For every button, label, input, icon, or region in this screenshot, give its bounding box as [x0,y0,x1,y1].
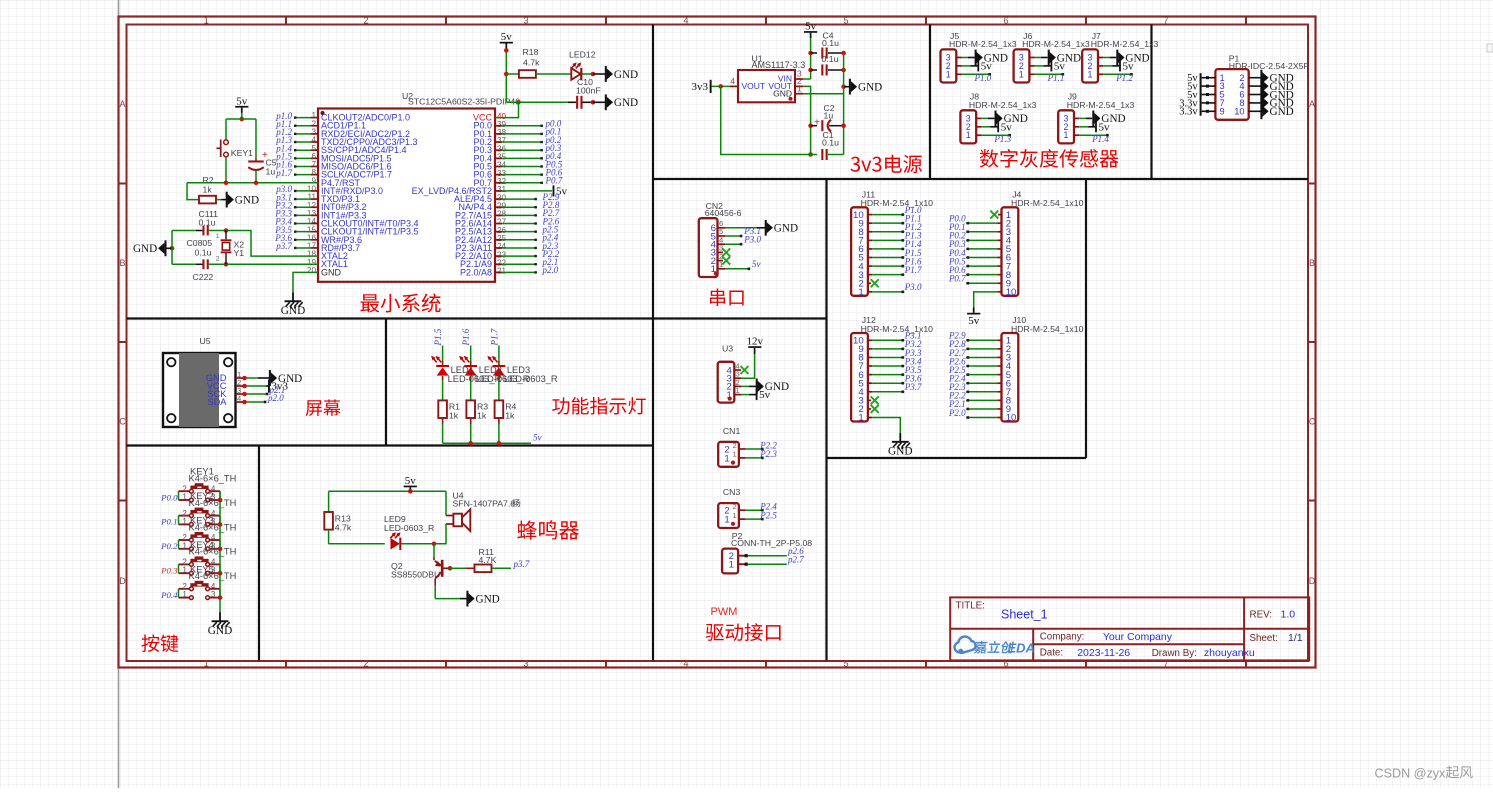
svg-text:3v3: 3v3 [692,81,709,93]
svg-text:U3: U3 [722,344,733,354]
svg-text:1: 1 [858,413,863,424]
GND port (3v3 section) [841,79,882,95]
svg-text:P1.0: P1.0 [974,73,992,83]
capacitor C222 0.1u [172,238,318,282]
crystal X2 Y1 [216,231,244,265]
wire xtal left vertical [171,231,173,265]
svg-text:1: 1 [204,16,209,26]
svg-text:5v: 5v [1054,61,1066,73]
title 功能指示灯 [552,397,646,415]
switch KEY4 button [179,540,237,575]
svg-text:P2.0: P2.0 [948,408,966,418]
title 3v3电源 [851,155,922,173]
svg-text:P1.4: P1.4 [1091,134,1109,144]
svg-text:1: 1 [733,511,737,520]
svg-text:CSDN @zyx: CSDN @zyx [1375,766,1447,780]
svg-text:Your Company: Your Company [1103,631,1173,643]
J10 pin wires P2.9-P2.0 [966,339,1001,419]
wire KEY5 left bracket [178,589,180,598]
U2 right pin wires pins 30-21 [495,198,537,274]
svg-text:1: 1 [736,386,740,395]
svg-text:4.7k: 4.7k [523,57,540,67]
svg-text:1.0: 1.0 [1281,608,1296,620]
net label P0.4 [160,590,178,600]
wire VIN pin3 to 5v [803,78,811,80]
J4 pin10 wire to 5v [974,292,1002,313]
svg-text:5v: 5v [236,95,248,107]
wire Q2 base to R11 [444,566,466,571]
connector J7 [1082,31,1158,83]
svg-text:3: 3 [523,16,528,26]
wire 5v input rail [808,38,813,79]
svg-text:+: + [262,150,268,161]
U5 pin1 wire to GND [242,370,302,386]
U3 pin4 no-connect [741,366,749,374]
scrollbar fragment top right [1487,44,1493,52]
svg-text:4.7k: 4.7k [335,523,352,533]
svg-text:p2.0: p2.0 [267,393,284,403]
net label P1.6 (vertical) [461,328,471,346]
svg-text:P0.3: P0.3 [160,566,178,576]
svg-text:0.1u: 0.1u [822,54,839,64]
GND earth (U2 pin20) [281,272,318,316]
LED name labels [448,365,558,384]
J11 net labels P1.0-P1.7 [904,205,922,275]
title block texts [956,600,1303,659]
EDA logo [955,637,1035,656]
svg-text:Drawn By:: Drawn By: [1152,648,1197,659]
svg-text:5v: 5v [968,315,980,327]
svg-text:P0.1: P0.1 [160,517,177,527]
svg-text:5v: 5v [981,61,993,73]
svg-text:10: 10 [1006,413,1017,424]
LED12 [569,50,596,81]
svg-text:GND: GND [888,445,912,457]
svg-text:GND: GND [235,194,259,206]
net label P0.3 [160,566,178,576]
svg-text:P1.2: P1.2 [1115,73,1133,83]
svg-text:1u: 1u [266,167,276,177]
capacitor C5 1u [248,150,276,183]
svg-text:1: 1 [729,560,734,571]
J12 pin1 wire to GND [868,418,900,434]
svg-text:D: D [119,576,126,586]
svg-text:0.1u: 0.1u [822,138,839,148]
svg-text:1: 1 [946,69,951,79]
resistor R18 4.7k [506,47,571,78]
svg-text:KEY1: KEY1 [231,148,253,158]
svg-text:4: 4 [683,16,688,26]
frame column ticks and numbers [204,16,1246,669]
wire gnd vertical rail [843,53,845,155]
svg-text:P0.0: P0.0 [160,492,178,502]
svg-text:K4-6×6_TH: K4-6×6_TH [189,522,237,532]
speaker U4 SFN-1407PA7.6 [446,490,520,531]
net label P0.1 [160,517,177,527]
title 串口 [710,289,744,306]
svg-text:LED-0603_R: LED-0603_R [504,374,558,384]
svg-text:TITLE:: TITLE: [956,600,985,611]
watermark [1375,766,1473,781]
connector J10 [1002,315,1084,424]
svg-text:HDR-M-2.54_1x10: HDR-M-2.54_1x10 [1011,198,1084,208]
svg-text:1: 1 [182,541,186,550]
svg-text:GND: GND [774,223,798,235]
capacitor C1 0.1u [821,130,839,160]
wire 3v3 bottom rail [721,86,844,154]
J11 pin wires P1.0-P1.7 [868,213,905,276]
GND port (xtal) [133,240,174,256]
5v power port (MCU) [500,31,513,49]
svg-text:p3.7: p3.7 [513,559,530,569]
svg-text:5v: 5v [752,259,761,269]
wire KEY3 left bracket [178,540,180,549]
J11 pin2 no-connect [868,279,879,287]
5v power port (reset) [235,95,248,113]
P1 right GND ports [1249,70,1294,119]
svg-text:2: 2 [216,256,220,263]
svg-text:CN1: CN1 [723,426,741,436]
svg-text:1: 1 [733,450,737,459]
LED2 [459,346,477,401]
wire Q2 collector to gnd [435,585,466,599]
svg-text:HDR-M-2.54_1x10: HDR-M-2.54_1x10 [1011,324,1084,334]
svg-text:1: 1 [1087,69,1092,79]
regulator U1 AMS1117-3.3 [730,53,805,102]
CN2 pin4 wire P3.0 [718,234,762,245]
svg-text:GND: GND [476,593,500,605]
svg-text:20: 20 [307,266,317,275]
svg-text:U5: U5 [200,336,211,346]
svg-text:GND: GND [1270,106,1294,118]
wire 5v vertical rail [504,48,521,104]
GND port (LED12) [593,66,638,82]
svg-text:P0.7: P0.7 [545,176,563,186]
svg-text:VOUT: VOUT [742,81,766,91]
svg-text:100nF: 100nF [576,85,601,95]
svg-text:2: 2 [363,16,368,26]
svg-text:5v: 5v [1099,121,1111,133]
svg-text:P2.3: P2.3 [759,449,777,459]
switch KEY5 button [179,564,237,599]
U5 pin3 wire p2.1 [242,385,285,396]
J10 net labels P2.9-P2.0 [948,331,966,418]
svg-text:5v: 5v [805,21,817,33]
svg-text:LED-0603_R: LED-0603_R [384,523,434,533]
connector J4 [1002,189,1084,298]
sheet left edge gray line [118,0,120,788]
U3 pin2 wire to GND [741,379,789,395]
svg-text:p3.7: p3.7 [275,241,292,251]
transistor Q2 SS8550DBU [391,544,444,585]
svg-text:1: 1 [1063,130,1068,140]
net label P1.5 (vertical) [433,328,443,346]
title 驱动接口 [706,623,781,641]
resistor R11 4.7K [466,547,512,572]
svg-text:Y1: Y1 [234,248,245,258]
wire speaker right branch [434,491,446,544]
U2 left pin wires pins1-8 [294,116,318,175]
svg-text:1k: 1k [477,411,487,421]
svg-text:GND: GND [614,69,638,81]
12v power port [747,336,764,348]
svg-text:640456-6: 640456-6 [705,208,742,218]
connector P1 HDR-IDC-2.54-2X5P [1215,54,1309,120]
svg-text:HDR-M-2.54_1x3: HDR-M-2.54_1x3 [969,100,1037,110]
svg-text:Date:: Date: [1040,648,1063,659]
connector J11 [851,189,933,298]
svg-text:P3.7: P3.7 [904,382,922,392]
J4 pin wires P0.0-P0.7 [966,222,1001,285]
svg-text:21: 21 [497,267,507,276]
section divider lines [127,25,1309,661]
connector CN1 [718,426,777,467]
net labels P2.9-p2.0 [542,192,560,275]
wire 5v rail (LEDs) [443,433,542,446]
svg-text:5v: 5v [501,31,513,43]
svg-text:5v: 5v [759,389,771,401]
wire GND pin1 to gnd rail [803,93,844,95]
capacitor C2 1u electrolytic [811,103,846,132]
svg-text:C222: C222 [193,272,214,282]
LED1 [431,346,449,401]
connector J6 [1014,31,1090,83]
J12 net labels P3.1-P3.7 [904,331,922,392]
svg-text:3.3v: 3.3v [1179,107,1198,118]
J11 pin1 wire P3.0 [868,282,922,293]
svg-text:P1.7: P1.7 [489,328,499,346]
svg-text:1: 1 [1019,69,1024,79]
svg-text:4: 4 [683,659,688,669]
svg-text:GND: GND [321,267,342,277]
resistor R3 1k [466,400,488,443]
svg-text:1: 1 [724,453,729,464]
svg-text:GND: GND [208,625,232,637]
svg-text:STC12C5A60S2-35I-PDIP40: STC12C5A60S2-35I-PDIP40 [408,97,520,107]
title 屏幕 [306,399,341,416]
svg-text:SFN-1407PA7.6-: SFN-1407PA7.6- [453,498,519,508]
svg-text:P3.0: P3.0 [904,282,922,292]
svg-text:5v: 5v [1123,61,1135,73]
connector J5 [941,31,1017,83]
capacitor C4 0.1u [811,30,846,58]
svg-text:Sheet_1: Sheet_1 [1001,608,1048,622]
svg-text:6: 6 [1003,16,1008,26]
U2 left pin wires pins10-17 [294,190,318,249]
J12 pin2 no-connect [868,405,879,413]
net label P0.0 [160,492,178,502]
svg-text:SS8550DBU: SS8550DBU [391,570,440,580]
svg-text:1/1: 1/1 [1288,632,1303,644]
wire xtal upper [226,231,318,257]
switch KEY2 button [179,491,237,526]
svg-text:A: A [119,99,125,109]
svg-text:P1.7: P1.7 [904,265,922,275]
svg-text:5v: 5v [1001,121,1013,133]
U3 pin3 wire to 12v [741,348,755,378]
svg-text:5: 5 [843,659,848,669]
svg-text:P0.2: P0.2 [160,541,178,551]
svg-text:1k: 1k [203,184,213,194]
title 蜂鸣器 [517,520,579,539]
CN2 pin1 wire 5v [718,259,761,270]
svg-text:2023-11-26: 2023-11-26 [1077,647,1130,659]
svg-text:0.1u: 0.1u [195,247,212,257]
svg-text:1: 1 [182,493,186,502]
connector CN3 [718,487,777,528]
wire KEY2 left bracket [178,516,180,525]
svg-text:1k: 1k [449,411,459,421]
svg-text:p1.7: p1.7 [275,168,292,178]
svg-text:Sheet:: Sheet: [1250,633,1278,644]
LED3 [487,346,505,401]
P1 left power wires 5v/3.3v [1179,73,1215,118]
GND earth (J12) [888,433,912,457]
sheet frame inner border [127,25,1309,662]
svg-text:1u: 1u [824,110,834,120]
wire buzzer bottom rail [329,543,385,545]
svg-text:1: 1 [182,566,186,575]
net labels p0.0-P0.7 [545,119,563,186]
wire KEY4 left bracket [178,564,180,573]
J12 pin3 no-connect [868,396,879,404]
svg-text:GND: GND [773,89,792,99]
wire keys right bus [218,491,223,614]
svg-text:GND: GND [614,97,638,109]
5v power port (J4) [967,308,980,327]
svg-text:B: B [1309,258,1315,268]
U3 pin1 wire to 5v [741,389,771,401]
svg-text:5v: 5v [405,475,417,487]
svg-text:1: 1 [966,130,971,140]
CN2 pin3 no-connect [718,248,731,256]
U5 pin2 wire to 3v3 [242,380,288,393]
CN2 pin2 no-connect [718,257,731,265]
connector J8 [960,92,1036,144]
net label P0.2 [160,541,178,551]
svg-text:HDR-M-2.54_1x10: HDR-M-2.54_1x10 [861,198,934,208]
svg-text:CN3: CN3 [723,487,741,497]
svg-text:1: 1 [724,515,729,526]
svg-text:P0.7: P0.7 [948,274,966,284]
svg-text:5v: 5v [533,433,542,443]
GND port (R2) [222,192,260,208]
svg-text:1: 1 [858,287,863,298]
svg-text:7: 7 [1163,16,1168,26]
svg-text:SDA: SDA [207,397,227,407]
resistor R1 1k [438,400,460,443]
connector P2 CONN-TH_2P-P5.08 [722,531,812,574]
capacitor C10 100nF [506,77,600,109]
svg-text:REV:: REV: [1250,609,1273,620]
svg-text:P2.5: P2.5 [759,510,777,520]
J4 net labels P0.0-P0.7 [948,213,966,283]
svg-text:+: + [814,118,820,129]
svg-text:PWM: PWM [711,606,738,618]
svg-text:P2.0/A8: P2.0/A8 [460,267,492,277]
connector U3 [718,344,741,403]
sheet frame outer border [119,17,1316,668]
svg-text:P3.0: P3.0 [743,234,761,244]
svg-text:2: 2 [733,502,737,511]
GND port (buzzer) [466,591,499,607]
svg-text:P1.5: P1.5 [433,328,443,346]
U5 pin4 wire p2.0 [242,393,284,404]
U2 right pin wires pins 39-32 [495,125,543,184]
resistor R4 1k [495,400,517,443]
CN2 pin6 GND wire [718,220,799,236]
title 最小系统 [360,294,440,313]
J12 pin wires P3.1-P3.7 [868,339,905,393]
J4 pin1 no-connect [990,211,1001,219]
svg-text:P1.6: P1.6 [461,328,471,346]
svg-text:9: 9 [1220,106,1225,116]
svg-text:1: 1 [182,517,186,526]
svg-text:10: 10 [1006,287,1017,298]
switch KEY3 button [179,516,237,551]
net label p3.7 [513,559,530,569]
LED9 [384,514,436,550]
connector CN2 640456-6 [699,201,742,277]
capacitor C111 0.1u [172,209,228,235]
svg-text:GND: GND [858,82,882,94]
GND earth (keys) [208,612,232,636]
svg-text:R18: R18 [523,47,539,57]
svg-text:A: A [1309,99,1315,109]
svg-text:HDR-M-2.54_1x3: HDR-M-2.54_1x3 [949,39,1017,49]
switch KEY1 button [179,467,237,502]
wire RST row [187,157,318,185]
svg-text:K4-6×6_TH: K4-6×6_TH [189,571,237,581]
GND port (C10) [593,94,638,110]
svg-text:K4-6×6_TH: K4-6×6_TH [189,547,237,557]
svg-text:EDA: EDA [1008,640,1035,655]
svg-text:P0.4: P0.4 [160,590,178,600]
svg-text:GND: GND [133,243,157,255]
title block frame [950,597,1309,660]
svg-text:4: 4 [730,76,735,86]
svg-text:zhouyanxu: zhouyanxu [1204,647,1255,659]
svg-text:4.7K: 4.7K [479,555,497,565]
svg-text:10: 10 [1234,106,1244,116]
net label P1.7 (vertical) [489,328,499,346]
svg-text:K4-6×6_TH: K4-6×6_TH [189,474,237,484]
svg-text:1k: 1k [505,411,515,421]
svg-text:LED12: LED12 [569,50,596,60]
svg-text:HDR-M-2.54_1x3: HDR-M-2.54_1x3 [1067,100,1135,110]
svg-text:5: 5 [843,16,848,26]
svg-text:1: 1 [204,659,209,669]
title 按键 [142,634,179,652]
svg-text:P1.3: P1.3 [993,134,1011,144]
svg-text:3: 3 [523,659,528,669]
net labels p3.0-p3.7 [274,184,292,251]
svg-text:3: 3 [211,590,215,599]
chip U2 STC12C5A60S2-35I-PDIP40 [307,91,520,282]
CN2 pin5 wire P3.1 [718,226,762,237]
title 数字灰度传感器 [980,149,1119,168]
svg-text:2: 2 [363,659,368,669]
module U5 screen [163,336,243,427]
svg-text:HDR-M-2.54_1x3: HDR-M-2.54_1x3 [1091,39,1159,49]
net labels p1.0-p1.7 [275,111,292,178]
wire VCC pin40 to 5v rail [495,102,519,117]
resistor R2 1k [187,175,222,203]
3v3 net port [692,80,712,93]
svg-text:HDR-M-2.54_1x10: HDR-M-2.54_1x10 [861,324,934,334]
svg-text:C: C [119,416,126,426]
svg-text:HDR-M-2.54_1x3: HDR-M-2.54_1x3 [1022,39,1090,49]
